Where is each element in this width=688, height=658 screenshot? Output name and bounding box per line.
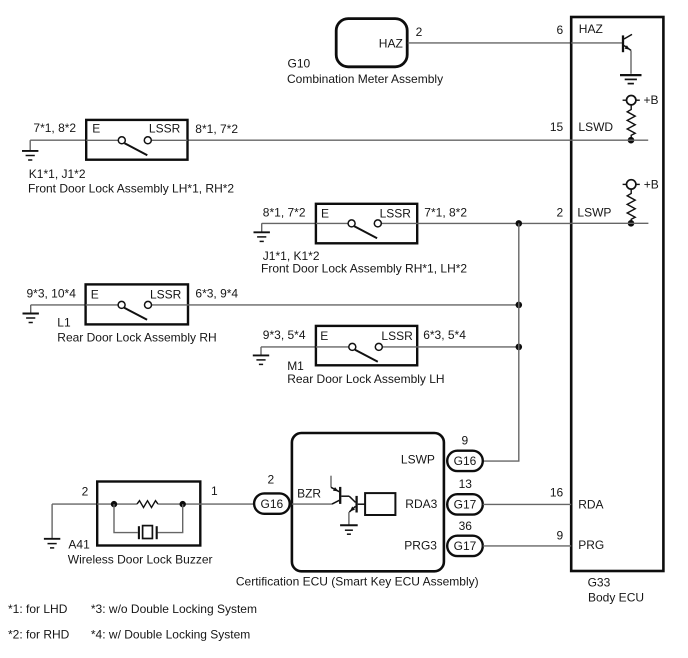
svg-text:6*3, 5*4: 6*3, 5*4 [423,328,466,342]
svg-text:Front Door Lock Assembly RH*1,: Front Door Lock Assembly RH*1, LH*2 [261,261,467,275]
ground for Q1 in G33 [620,75,642,84]
svg-text:M1: M1 [287,359,304,373]
junction dot LSWP inside G33 [628,220,635,227]
svg-text:9*3, 10*4: 9*3, 10*4 [27,286,77,300]
svg-text:9: 9 [461,434,468,448]
wire LSWP inside G33 [571,222,648,224]
wire ground to switch L1 E terminal [31,304,86,306]
svg-text:Wireless Door Lock Buzzer: Wireless Door Lock Buzzer [68,552,213,566]
junction dot LSWD [628,137,635,144]
certification ECU box [292,433,444,571]
wire ground to switch M1 E terminal [261,346,316,348]
switch contact left J1/K1 [348,220,355,227]
svg-text:G10: G10 [288,56,311,70]
wire RDA3 from G17 to G33 pin 16 [483,503,571,505]
svg-text:2: 2 [557,206,564,220]
svg-text:HAZ: HAZ [579,22,603,36]
wire from switch M1 to LSWP node [417,346,519,348]
transistor Q3 NPN in certification ECU [349,496,365,513]
wire inside switch L1 right [152,304,189,306]
switch contact right M1 [375,343,382,350]
piezo element body [143,526,153,539]
ground for front door lock assembly RH [254,223,270,241]
svg-text:G33: G33 [588,575,611,589]
door lock switch J1/K1 box [316,204,417,244]
junction dot LSWP node [516,220,523,227]
svg-text:E: E [92,122,100,136]
svg-text:G17: G17 [454,498,477,512]
svg-text:15: 15 [550,120,564,134]
svg-text:2: 2 [268,473,275,487]
svg-text:PRG: PRG [578,538,604,552]
svg-text:Rear Door Lock Assembly LH: Rear Door Lock Assembly LH [287,372,444,386]
+B supply symbol for LSWD pull-up [623,93,659,107]
svg-text:E: E [320,329,328,343]
wire from switch L1 to LSWP node [188,304,519,306]
svg-text:8*1, 7*2: 8*1, 7*2 [263,205,306,219]
wire piezo branch left [114,504,138,532]
connector G17 pin 13 oval [447,494,483,514]
svg-text:2: 2 [416,25,423,39]
wire LSWP vertical bus to certification ECU [483,223,519,461]
switch arm J1/K1 [354,226,377,238]
connector G17 pin 36 oval [447,536,483,556]
svg-text:LSSR: LSSR [150,287,182,301]
junction dot buzzer left [111,501,117,507]
svg-text:8*1, 7*2: 8*1, 7*2 [195,122,238,136]
svg-text:E: E [91,287,99,301]
svg-text:36: 36 [459,519,473,533]
wire LSWD inside G33 [571,139,648,141]
svg-text:1: 1 [211,484,218,498]
svg-text:Certification ECU (Smart Key E: Certification ECU (Smart Key ECU Assembl… [236,575,479,589]
switch contact right J1/K1 [374,220,381,227]
door lock switch K1/J1 box [86,120,187,160]
switch arm M1 [355,350,378,362]
svg-text:LSSR: LSSR [149,122,181,136]
transistor Q2 PNP in certification ECU [331,476,356,504]
connector G16 pin 2 oval [254,493,290,513]
+B supply symbol for LSWP pull-up [623,177,659,191]
svg-text:PRG3: PRG3 [404,539,437,553]
svg-text:7*1, 8*2: 7*1, 8*2 [424,205,467,219]
svg-text:LSWP: LSWP [577,205,611,219]
wireless door lock buzzer A41 box [97,482,200,546]
junction dot rear RH to LSWP node [516,302,523,309]
switch contact left L1 [118,301,125,308]
svg-text:LSWD: LSWD [578,120,613,134]
door lock switch L1 box [86,284,188,324]
svg-text:7*1, 8*2: 7*1, 8*2 [33,121,76,135]
wire HAZ inside G33 to transistor base [571,42,622,44]
svg-text:LSSR: LSSR [381,329,413,343]
resistor LSWD pull-up [627,105,635,140]
svg-text:*4: w/ Double Locking System: *4: w/ Double Locking System [91,628,250,642]
svg-text:Rear Door Lock Assembly RH: Rear Door Lock Assembly RH [57,330,216,344]
svg-text:9: 9 [557,528,564,542]
svg-text:RDA3: RDA3 [405,497,437,511]
svg-text:*2: for RHD: *2: for RHD [8,628,70,642]
svg-text:L1: L1 [57,315,71,329]
combination meter G10 box [336,19,407,67]
wire PRG3 from G17 to G33 pin 9 [483,545,571,547]
switch contact right K1/J1 [144,137,151,144]
wire ground to door lock switch E terminal [30,139,86,141]
svg-text:A41: A41 [68,537,90,551]
piezo element electrode right [156,526,158,539]
piezo element electrode left [138,526,140,539]
resistor LSWP pull-up [627,189,635,223]
driver block in certification ECU [365,493,395,515]
switch arm K1/J1 [125,143,148,155]
svg-text:Front Door Lock Assembly LH*1,: Front Door Lock Assembly LH*1, RH*2 [28,182,234,196]
ground for rear door lock assembly LH [253,347,269,365]
svg-text:Combination Meter Assembly: Combination Meter Assembly [287,72,443,86]
wire LSWD from front door lock switch to G33 pin 15 [188,139,572,141]
svg-text:2: 2 [82,485,89,499]
svg-text:9*3, 5*4: 9*3, 5*4 [263,328,306,342]
svg-text:G16: G16 [454,454,477,468]
wire piezo branch right [158,504,183,532]
ground for rear door lock assembly RH [23,305,39,323]
wire Q1 emitter to ground [630,50,632,73]
svg-text:LSWP: LSWP [401,453,435,467]
door lock switch M1 box [316,326,417,365]
svg-text:K1*1, J1*2: K1*1, J1*2 [29,167,86,181]
wire LSWP from switch J1/K1 to G33 pin 2 [417,222,571,224]
wire inside switch J1/K1 [316,222,348,224]
junction dot buzzer right [180,501,186,507]
svg-text:Body ECU: Body ECU [588,591,644,605]
wire BZR to transistor Q2 collector [292,503,332,505]
resistor inside buzzer [137,501,158,508]
ground for Q3 in certification ECU [340,525,358,534]
svg-text:HAZ: HAZ [379,36,403,50]
transistor Q1 hazard driver in G33 [623,34,632,52]
wire ground to switch J1/K1 E terminal [262,222,316,224]
body ECU G33 box [571,17,663,571]
wire inside switch J1/K1 right [381,222,417,224]
svg-text:LSSR: LSSR [380,207,412,221]
svg-text:RDA: RDA [578,498,603,512]
switch contact left M1 [349,343,356,350]
svg-text:13: 13 [459,477,473,491]
wire HAZ from G10 pin 2 to G33 pin 6 [408,42,572,44]
wire inside buzzer left [97,503,137,505]
wire inside switch L1 [86,304,119,306]
svg-text:E: E [321,207,329,221]
svg-text:*3: w/o Double Locking System: *3: w/o Double Locking System [91,602,257,616]
wire inside switch K1/J1 [86,139,118,141]
svg-text:16: 16 [550,486,564,500]
svg-text:+B: +B [644,93,659,107]
wire ground to buzzer pin 2 [52,503,97,505]
switch contact left K1/J1 [118,137,125,144]
svg-text:G16: G16 [261,497,284,511]
svg-text:6: 6 [557,23,564,37]
switch contact right L1 [145,301,152,308]
switch arm L1 [124,308,147,320]
svg-text:+B: +B [644,177,659,191]
ground for front door lock assembly LH [22,140,38,160]
connector G16 pin 9 oval [447,451,483,471]
wire inside switch M1 right [382,346,417,348]
svg-text:6*3, 9*4: 6*3, 9*4 [195,286,238,300]
wire from buzzer resistor to pin 1 and G16 connector [158,503,254,505]
svg-text:BZR: BZR [297,486,321,500]
ground for wireless door lock buzzer [44,504,60,548]
svg-text:G17: G17 [454,539,477,553]
svg-text:*1: for LHD: *1: for LHD [8,602,68,616]
junction dot rear LH to LSWP node [516,344,523,351]
wire inside switch M1 [316,346,349,348]
wire Q3 emitter to ground [348,512,350,525]
wire inside switch K1/J1 right [151,139,187,141]
